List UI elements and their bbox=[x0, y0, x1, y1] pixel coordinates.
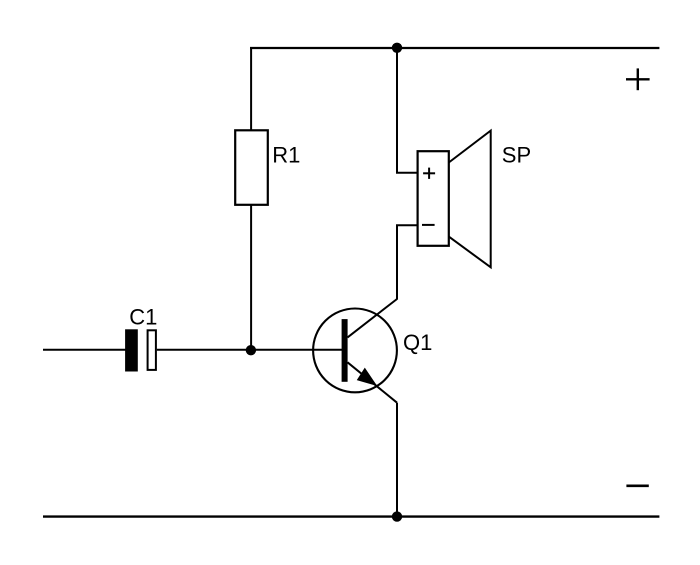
wire Q1 emitter to bottom rail bbox=[396, 403, 398, 517]
svg-text:SP: SP bbox=[502, 143, 531, 168]
wire Q1 collector to SP minus bbox=[397, 225, 418, 299]
Q1 collector diagonal bbox=[348, 299, 398, 337]
resistor R1 bbox=[235, 130, 268, 205]
SP plus terminal mark bbox=[423, 168, 435, 179]
node B junction dot bbox=[246, 345, 256, 355]
wire top rail V+ bbox=[250, 47, 659, 49]
wire R1 bottom (R1 to node B) bbox=[250, 205, 252, 350]
wire bottom rail V- bbox=[43, 515, 659, 517]
node top rail junction dot bbox=[392, 43, 402, 53]
Q1 body circle bbox=[313, 309, 397, 393]
wire R1 top (top rail to R1) bbox=[250, 48, 252, 131]
svg-text:R1: R1 bbox=[272, 142, 300, 167]
power symbol + (top rail) bbox=[626, 68, 650, 90]
SP body rect bbox=[418, 151, 449, 246]
Q1 emitter diagonal bbox=[348, 362, 398, 402]
transistor Q1 bbox=[313, 299, 397, 403]
Q1 emitter arrow bbox=[358, 369, 376, 385]
Q1 base bar bbox=[342, 319, 348, 382]
wire input (left end to C1) bbox=[43, 349, 126, 351]
wire top rail to SP plus bbox=[397, 48, 418, 173]
svg-text:C1: C1 bbox=[129, 304, 157, 329]
speaker SP bbox=[418, 131, 491, 268]
SP cone bbox=[449, 131, 491, 268]
power symbol - (bottom rail) bbox=[626, 484, 648, 487]
wire C1 to Q1 base (through node B) bbox=[157, 349, 342, 351]
node bottom rail junction dot bbox=[392, 511, 402, 521]
SP minus terminal mark bbox=[422, 224, 435, 226]
capacitor C1 bbox=[125, 329, 156, 371]
svg-text:Q1: Q1 bbox=[403, 330, 432, 355]
